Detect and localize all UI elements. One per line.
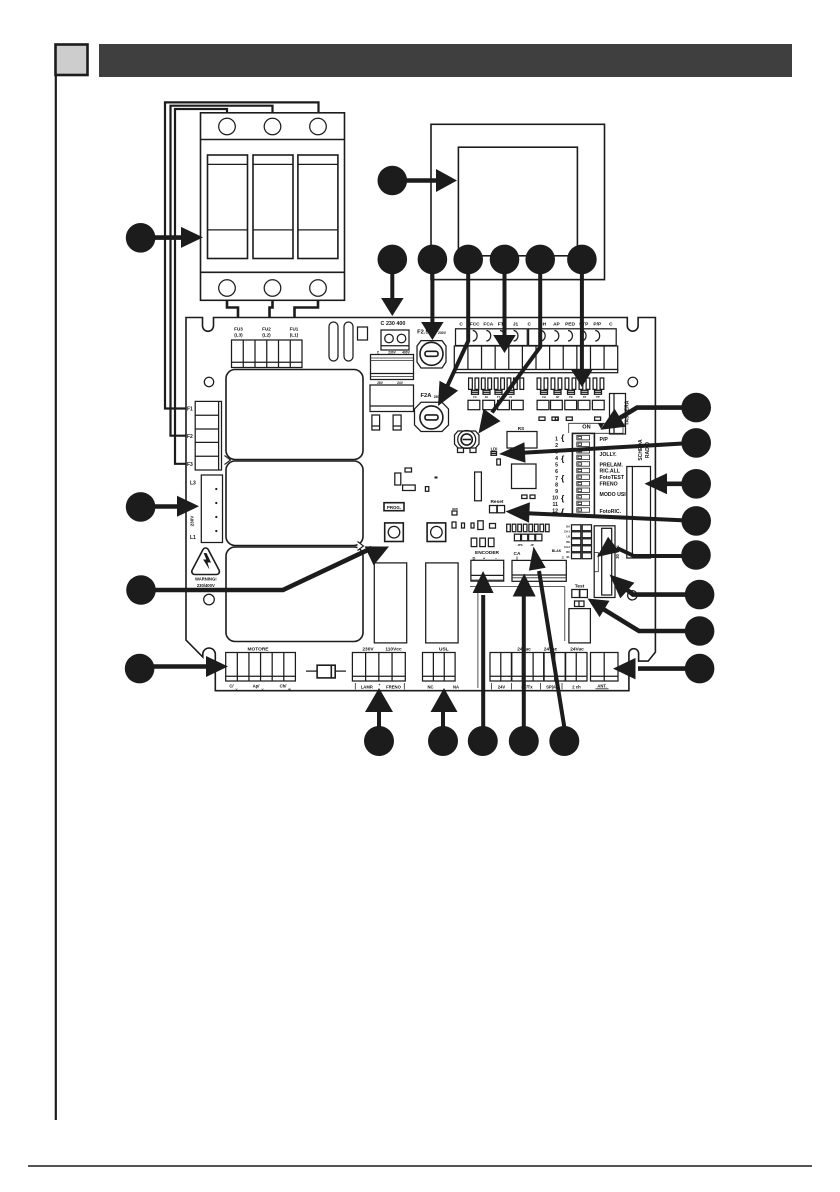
svg-text:AP: AP — [553, 321, 560, 327]
left margin rule — [55, 75, 57, 1120]
svg-text:F1: F1 — [187, 407, 193, 413]
DIP switch frame — [569, 423, 623, 433]
small component cluster — [405, 468, 412, 472]
terminal block USL — [423, 653, 456, 682]
svg-text:230V: 230V — [438, 331, 447, 335]
transformer outer box — [431, 124, 605, 279]
svg-text:9: 9 — [555, 489, 558, 495]
jumper pad row — [539, 417, 545, 420]
contactor pole module 3 — [298, 155, 338, 259]
contactor pole module 2 — [253, 155, 293, 259]
callout row circle T3: fuse F2A — [453, 245, 483, 275]
svg-text:P/P: P/P — [593, 321, 602, 327]
tick arrow between modules 2-3 — [358, 542, 364, 551]
arrow to contactor — [150, 235, 185, 240]
svg-text:V: V — [261, 688, 263, 692]
push button P1 — [385, 523, 404, 542]
svg-text:D: D — [473, 555, 476, 560]
svg-text:JP: JP — [530, 543, 534, 547]
terminal block low voltage — [490, 653, 587, 682]
component RS — [507, 432, 537, 449]
terminal block 230/400 — [381, 330, 409, 350]
svg-text:AP: AP — [556, 395, 560, 399]
right callout R1: TASTIERA — [681, 393, 711, 423]
contactor bottom band line — [201, 271, 345, 273]
svg-text:ST: ST — [583, 395, 587, 399]
right callout R5: jumper grid — [681, 540, 711, 570]
svg-text:Test: Test — [575, 583, 585, 589]
svg-text:NA: NA — [453, 685, 459, 690]
terminal block MOTORE — [226, 653, 296, 682]
svg-text:CH-2: CH-2 — [564, 545, 571, 549]
svg-text:2 ch: 2 ch — [572, 685, 581, 690]
fuse F2A holder — [415, 402, 449, 431]
relay RL2 — [426, 563, 458, 643]
PCB board outline — [186, 318, 655, 691]
callout circle L1: contactor — [126, 223, 156, 253]
arrow to LDI led — [523, 443, 687, 453]
svg-text:PROG.: PROG. — [387, 505, 401, 510]
arrow up to LAMP/FRENO — [377, 710, 381, 727]
svg-text:(L1): (L1) — [290, 333, 299, 338]
svg-text:C 230 400: C 230 400 — [381, 321, 406, 327]
svg-text:LAMP.: LAMP. — [361, 685, 374, 690]
jumper grid 2x5 — [572, 525, 581, 531]
bottom callout B2: USL — [428, 726, 458, 756]
PCB hole right-bottom — [628, 591, 637, 600]
terminal block ANT — [591, 653, 619, 682]
arrow to header — [539, 571, 564, 727]
right callout R3: SCHEDA RADIO — [681, 469, 711, 499]
callout row circle T4: FT0 input — [490, 245, 520, 275]
wire F2 to contactor L2 top — [171, 106, 273, 436]
svg-text:MODO USI: MODO USI — [600, 492, 627, 498]
svg-text:W: W — [288, 688, 291, 692]
svg-text:PED: PED — [565, 321, 575, 327]
svg-text:FA: FA — [485, 395, 488, 399]
callout row circle T6: STP input — [567, 245, 597, 275]
contactor bottom terminal circle 3 — [310, 280, 327, 297]
svg-text:FRENO: FRENO — [600, 482, 618, 488]
svg-text:RE: RE — [566, 540, 570, 544]
arrow up to USL — [441, 710, 445, 727]
svg-text:FCA: FCA — [483, 321, 493, 327]
wire contactor bottom 3 to FU1 — [295, 300, 319, 360]
svg-text:Ch/: Ch/ — [280, 684, 288, 689]
svg-text:WARNING!: WARNING! — [195, 577, 217, 582]
arrow to trimmer — [492, 270, 540, 413]
arrow to radio connector — [665, 481, 687, 486]
arrow to transformer — [402, 178, 440, 183]
svg-text:RIC.ALL: RIC.ALL — [600, 468, 621, 474]
svg-text:SCHEDA: SCHEDA — [638, 439, 644, 461]
PCB mounting hole top-right — [628, 377, 638, 387]
svg-text:+: + — [379, 683, 381, 687]
svg-text:230/400V: 230/400V — [197, 583, 215, 588]
optocoupler row right — [537, 400, 549, 409]
svg-text:L1: L1 — [190, 535, 196, 541]
terminal block LAMP FRENO — [352, 653, 405, 682]
connector battery charger — [594, 526, 615, 598]
contactor top band line — [201, 139, 345, 141]
relay RL3 — [569, 609, 591, 643]
svg-text:FU1: FU1 — [290, 327, 299, 332]
svg-text:FC: FC — [473, 395, 477, 399]
svg-text:F2: F2 — [187, 434, 193, 440]
small rect component near slots — [358, 327, 368, 340]
svg-text:L3: L3 — [190, 481, 196, 487]
callout circle L2: mains connector — [126, 492, 156, 522]
right callout R7: Test — [685, 616, 715, 646]
encoder pads — [471, 538, 477, 547]
contactor pole module 1 — [208, 155, 248, 259]
bottom callout B3: ENCODER — [468, 726, 498, 756]
capacitor C9 — [475, 472, 482, 501]
IC component below RS — [512, 464, 537, 489]
arrow to mains connector — [150, 504, 181, 509]
svg-text:(L2): (L2) — [262, 333, 271, 338]
svg-text:FotoRIC.: FotoRIC. — [600, 509, 622, 515]
svg-text:C: C — [609, 321, 613, 327]
connector mains L — [201, 475, 222, 543]
arrow to F2A — [443, 270, 469, 397]
capacitor C2 — [393, 415, 401, 430]
right callout R6: battery connector — [685, 580, 715, 610]
jumper Test — [572, 590, 580, 598]
bottom callout B4: CA — [509, 726, 539, 756]
svg-text:BLAK: BLAK — [552, 549, 562, 553]
bottom callout B1: LAMP FRENO — [364, 726, 394, 756]
terminal block FU3 FU2 FU1 — [232, 340, 303, 368]
svg-text:110Vcc: 110Vcc — [385, 647, 402, 653]
svg-text:FU3: FU3 — [234, 327, 243, 332]
top terminal strip cells — [454, 346, 617, 370]
svg-text:NC: NC — [427, 685, 433, 690]
transformer inner box — [458, 147, 577, 256]
svg-text:MOTORE: MOTORE — [248, 647, 270, 653]
arrow to Reset jumper — [527, 513, 687, 520]
diode row right with labels — [541, 390, 548, 394]
svg-text:LB: LB — [567, 535, 571, 539]
resistor row left group — [469, 378, 473, 389]
callout row circle T1: 230/400 terminal — [378, 245, 408, 275]
svg-text:4: 4 — [555, 456, 558, 462]
callout circle L3: PROG button — [126, 575, 156, 605]
svg-text:USL: USL — [439, 647, 449, 653]
svg-text:ANT.: ANT. — [597, 684, 606, 689]
arrow to jumper grid — [617, 548, 687, 556]
jumper Reset — [490, 506, 497, 513]
svg-text:FU2: FU2 — [262, 327, 271, 332]
right callout R2: LDI led — [681, 428, 711, 458]
PCB mounting hole top-left — [204, 377, 213, 386]
svg-text:C: C — [527, 321, 531, 327]
svg-text:7: 7 — [555, 476, 558, 482]
svg-text:11: 11 — [553, 502, 559, 508]
svg-text:J1: J1 — [513, 321, 519, 327]
transformer module block 2 — [226, 461, 363, 546]
header 4 squares — [514, 534, 520, 541]
arrow down to 230/400 — [390, 270, 394, 299]
svg-text:F3: F3 — [187, 462, 193, 468]
svg-text:V: V — [235, 688, 237, 692]
svg-text:FRENO: FRENO — [386, 685, 401, 690]
svg-text:FotoTEST: FotoTEST — [600, 475, 625, 481]
fuse block F1 F2 F3 — [195, 401, 221, 470]
contactor top terminal circle 2 — [264, 118, 281, 135]
svg-text:RS: RS — [518, 426, 524, 431]
silkscreen line under CA — [470, 586, 565, 588]
title bar — [99, 44, 792, 77]
callout circle T0: transformer — [378, 166, 408, 196]
transformer secondary block — [370, 385, 414, 412]
svg-text:5: 5 — [555, 463, 558, 469]
svg-text:P/P: P/P — [600, 437, 609, 443]
arrow down to FT0 — [503, 270, 507, 336]
svg-text:Reset: Reset — [490, 499, 503, 505]
vent slot 2 — [344, 322, 353, 361]
right callout R8: ANT terminal — [685, 654, 715, 684]
svg-text:DA: DA — [566, 525, 570, 529]
contactor top terminal circle 1 — [219, 118, 236, 135]
fuse F2.5A holder — [417, 341, 446, 368]
contactor outer body — [201, 113, 345, 300]
vent slot 1 — [329, 322, 338, 361]
svg-text:BL: BL — [567, 555, 571, 559]
svg-text:ON: ON — [582, 425, 590, 431]
svg-text:SP|A: SP|A — [546, 685, 556, 690]
svg-text:CH-1: CH-1 — [564, 530, 571, 534]
contactor bottom terminal circle 2 — [264, 280, 281, 297]
svg-text:6: 6 — [555, 469, 558, 475]
PROG label — [384, 503, 404, 511]
trimmer potentiometer LDI — [455, 431, 480, 448]
arrow to MOTORE terminal — [149, 664, 210, 669]
svg-text:230V: 230V — [362, 647, 374, 653]
connector CA — [512, 560, 566, 581]
arrow down to STP — [580, 270, 584, 370]
small rect left of battery conn — [594, 553, 598, 572]
svg-text:CA: CA — [514, 551, 521, 557]
connector TASTIERA — [610, 394, 626, 435]
led D8 — [491, 452, 497, 456]
capacitor C1 — [372, 415, 380, 430]
connector SCHEDA RADIO — [627, 467, 651, 559]
wire F3 to contactor L3 top — [175, 109, 227, 464]
callout row circle T2: fuse F2.5A — [418, 245, 448, 275]
wire contactor bottom 1 to FU3 — [227, 300, 238, 360]
transformer module block 1 — [226, 370, 363, 460]
svg-text:PE: PE — [569, 395, 573, 399]
svg-text:8: 8 — [555, 482, 558, 488]
transformer module block 3 — [226, 547, 363, 642]
small component below Test — [575, 601, 585, 607]
svg-text:C: C — [459, 321, 463, 327]
svg-text:J.: J. — [562, 556, 565, 560]
relay RL1 — [374, 563, 406, 643]
arrow to PROG button — [150, 548, 372, 590]
arrow up to CA — [522, 596, 526, 727]
arrow down to F2.5A — [430, 270, 434, 323]
svg-text:PP: PP — [596, 395, 600, 399]
svg-text:10: 10 — [552, 495, 558, 501]
header pins row — [507, 524, 511, 532]
resistor row right group — [537, 378, 541, 389]
svg-text:RC: RC — [566, 550, 570, 554]
contactor top terminal circle 3 — [310, 118, 327, 135]
two small pads left of DIP — [522, 495, 527, 499]
arrow to Test area — [602, 608, 690, 631]
connector ENCODER — [471, 560, 504, 581]
svg-text:1: 1 — [555, 436, 558, 442]
arrow to battery connector — [626, 589, 690, 595]
tick arrow between modules 1-2 — [225, 456, 231, 465]
arrow to TASTIERA — [614, 408, 687, 422]
group dividers low voltage strip — [511, 653, 513, 682]
warning triangle symbol — [192, 548, 220, 575]
svg-text:F2A: F2A — [421, 393, 433, 399]
svg-text:24V: 24V — [397, 381, 404, 385]
page corner gray square — [56, 45, 88, 76]
svg-text:LDI: LDI — [491, 447, 498, 452]
svg-text:24Vac: 24Vac — [570, 647, 584, 653]
optocoupler row left — [468, 400, 480, 409]
svg-text:2: 2 — [555, 443, 558, 449]
svg-text:CH: CH — [542, 395, 546, 399]
PCB hole warning — [204, 594, 215, 605]
arrow up to ENCODER — [481, 595, 485, 727]
DIP switch block 12 ways — [572, 433, 594, 515]
wire contactor bottom 2 to FU2 — [270, 300, 273, 360]
callout row circle T5: trimmer LDI — [525, 245, 555, 275]
bottom labels 24V FT/Tx SP|A 2ch ANT — [491, 683, 493, 690]
callout circle L4: MOTORE — [125, 654, 155, 684]
contactor bottom terminal circle 1 — [219, 280, 236, 297]
right callout R4: Reset — [681, 506, 711, 536]
footer rule — [28, 1165, 812, 1167]
svg-text:FCC: FCC — [470, 321, 480, 327]
diode D1 — [306, 670, 317, 672]
svg-text:28V: 28V — [377, 381, 384, 385]
bottom callout B5: trimmer header — [549, 726, 579, 756]
svg-text:(L3): (L3) — [234, 333, 243, 338]
arrow to ANT terminal — [638, 666, 690, 671]
top terminal strip clamp row — [456, 329, 528, 346]
voltage selector block — [371, 355, 414, 380]
svg-text:JPS: JPS — [517, 543, 522, 547]
push button P2 — [427, 523, 446, 542]
svg-text:24V: 24V — [498, 685, 506, 690]
labels LAMP FRENO — [354, 683, 356, 690]
encoder leg trace — [477, 581, 479, 688]
svg-text:230V: 230V — [190, 515, 195, 527]
svg-text:Ap/: Ap/ — [253, 684, 261, 689]
wire F1 to contactor L1 top — [165, 102, 319, 408]
svg-text:JOLLY.: JOLLY. — [600, 452, 618, 458]
diode row left with labels — [472, 390, 479, 394]
